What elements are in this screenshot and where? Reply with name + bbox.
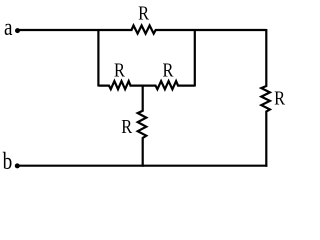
svg-text:R: R <box>163 59 174 82</box>
svg-text:R: R <box>121 115 132 138</box>
svg-text:a: a <box>4 14 13 41</box>
svg-text:R: R <box>114 59 125 82</box>
svg-text:R: R <box>274 87 285 110</box>
svg-text:b: b <box>3 148 13 174</box>
svg-text:R: R <box>138 2 149 25</box>
